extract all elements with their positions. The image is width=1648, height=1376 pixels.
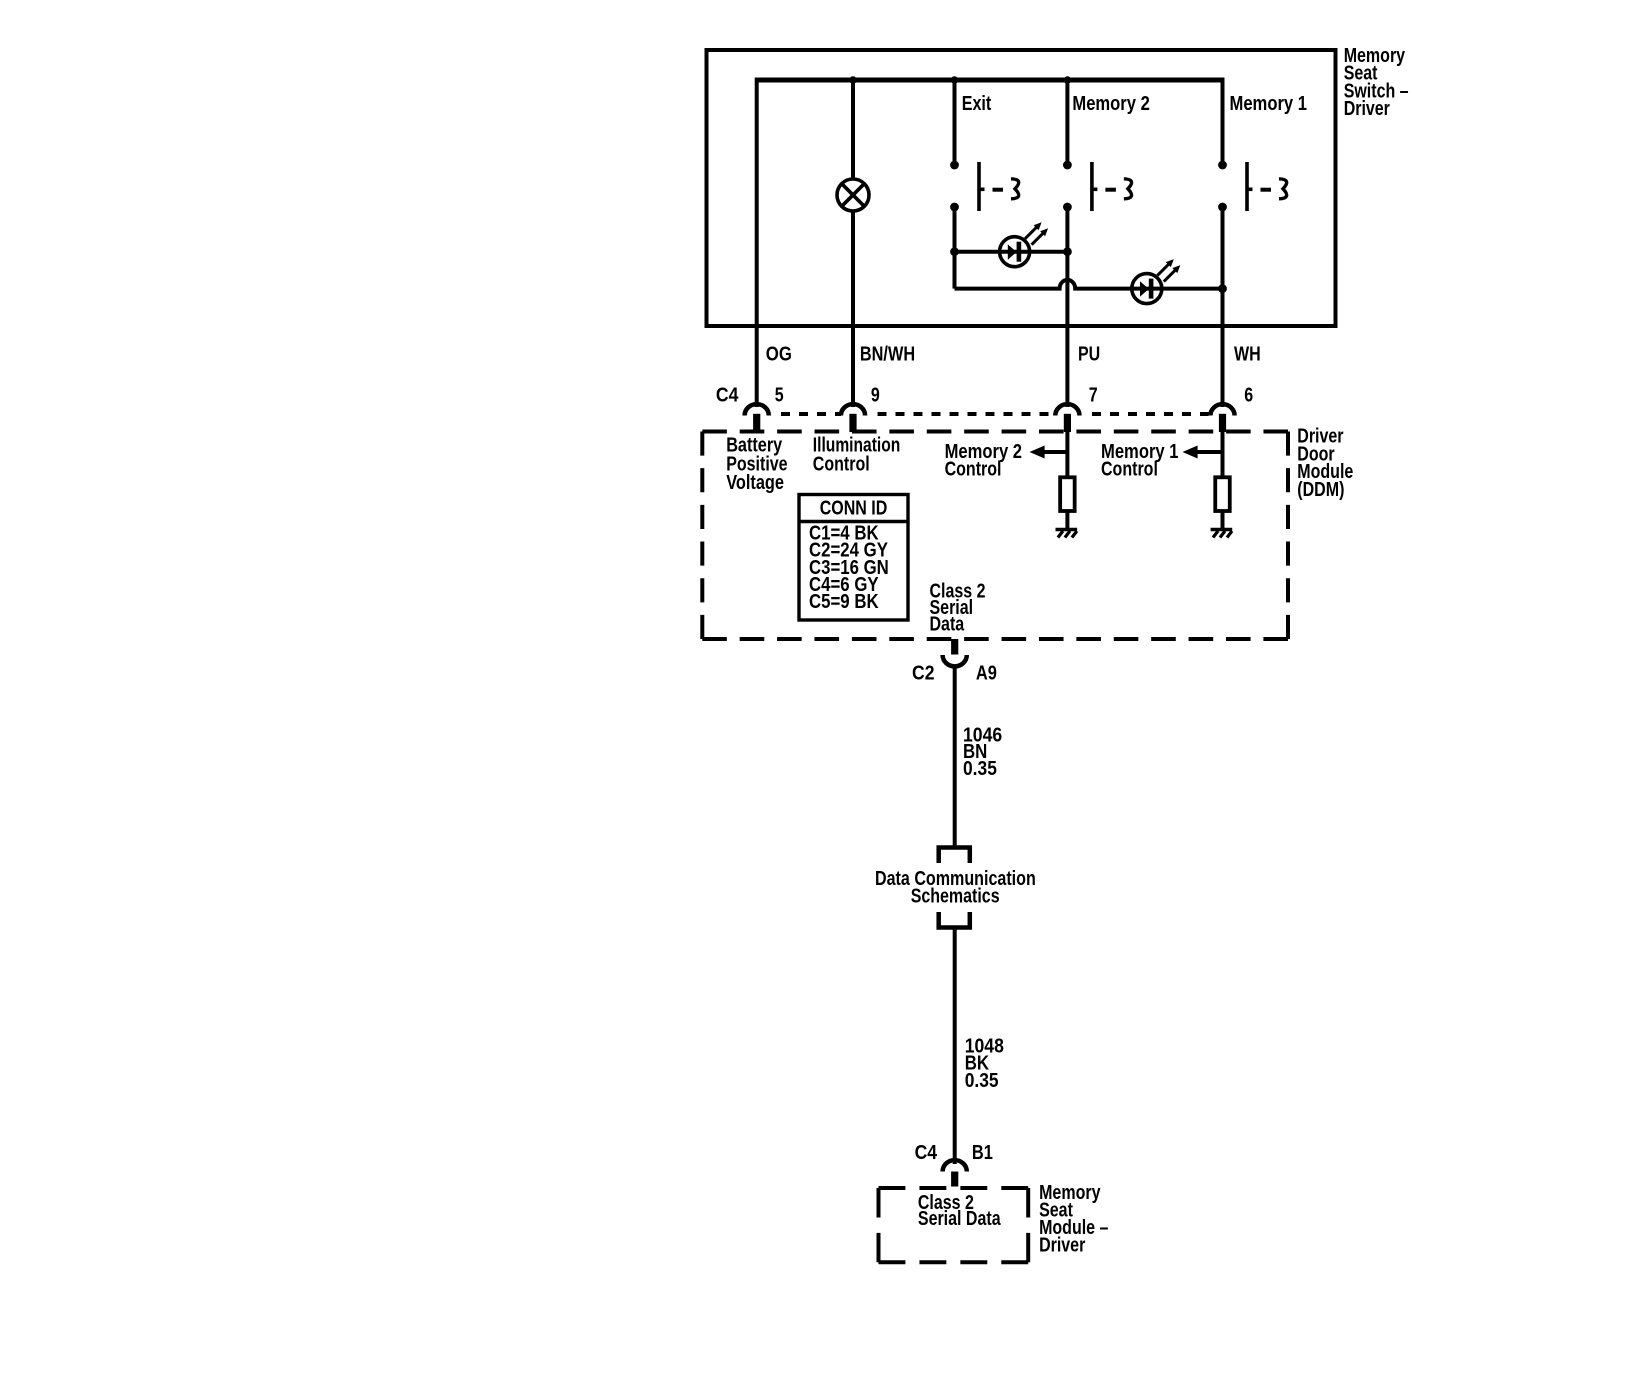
connector pin stub C4/B1 lower <box>951 1172 958 1187</box>
switch SW-Mem1 actuator bar <box>1245 162 1249 211</box>
node memory2 bottom terminal <box>1063 203 1072 212</box>
wire OG drop <box>755 78 759 327</box>
LED D2 memory1 indicator <box>1132 274 1162 304</box>
resistor R1 memory2 pulldown <box>1060 477 1075 511</box>
wire memory1 upper <box>1221 78 1225 166</box>
svg-text:Memory 2: Memory 2 <box>1072 93 1149 115</box>
wire bus <box>757 78 1223 83</box>
ground G1 <box>1056 528 1078 532</box>
connector pin stub pin 9 <box>849 414 856 432</box>
svg-text:C4: C4 <box>915 1142 938 1164</box>
svg-text:CONN ID: CONN ID <box>820 498 888 520</box>
lamp L1 illumination <box>837 179 869 211</box>
node memory 2 control arrow <box>1043 450 1067 454</box>
node LED1 row left junction <box>950 247 959 256</box>
connector pin stub C2 A9 upper <box>951 639 958 655</box>
svg-text:BN/WH: BN/WH <box>860 344 915 366</box>
switch SW-Mem2 momentary arrow <box>1124 179 1132 199</box>
LED D2 memory1 indicator emission arrows <box>1157 264 1169 276</box>
svg-text:C5=9 BK: C5=9 BK <box>809 591 879 613</box>
node memory 1 control arrow <box>1196 450 1223 454</box>
connector pin stub pin 7 <box>1064 414 1071 432</box>
svg-text:PU: PU <box>1078 344 1100 366</box>
svg-text:Control: Control <box>1101 458 1158 480</box>
svg-text:6: 6 <box>1244 385 1253 407</box>
switch SW-Exit actuator bar <box>977 162 981 211</box>
svg-text:Control: Control <box>945 458 1002 480</box>
wire connector dashed link 5-9 <box>781 412 841 416</box>
wire 1046 BN <box>953 667 957 848</box>
wire exit upper <box>953 80 957 165</box>
svg-text:0.35: 0.35 <box>965 1070 999 1092</box>
svg-text:A9: A9 <box>976 663 997 685</box>
svg-text:OG: OG <box>766 344 792 366</box>
bracket lower <box>939 912 970 928</box>
wire 1048 BK <box>953 928 957 1165</box>
connector half-circle C2/A9 <box>943 655 967 666</box>
node exit top terminal <box>950 161 959 170</box>
svg-text:C4: C4 <box>716 385 739 407</box>
node bus-exit junction <box>951 76 959 84</box>
wire lamp feed <box>851 80 855 179</box>
ground G2 <box>1211 528 1233 532</box>
Driver Door Module (DDM) dashed box <box>702 430 1288 434</box>
svg-text:B1: B1 <box>972 1142 993 1164</box>
resistor R2 memory1 pulldown <box>1215 477 1230 511</box>
svg-text:0.35: 0.35 <box>963 758 997 780</box>
wire exit lower <box>953 207 957 289</box>
wire OG to connector <box>755 326 759 407</box>
switch SW-Mem1 dashed link <box>1261 188 1272 192</box>
wire PU to connector <box>1065 326 1069 407</box>
switch SW-Exit dashed link <box>993 188 1004 192</box>
LED D1 memory2 indicator <box>1000 237 1030 267</box>
wire lamp to box edge <box>851 212 855 327</box>
wire BN/WH to connector <box>851 326 855 407</box>
wire connector dashed link 9-7 <box>878 412 1054 416</box>
node bus-memory2 junction <box>1064 76 1072 84</box>
svg-text:C2: C2 <box>912 663 935 685</box>
connector pin stub pin 6 <box>1219 414 1226 432</box>
wire memory1 lower <box>1221 207 1225 326</box>
switch SW-Mem2 dashed link <box>1105 188 1116 192</box>
wire connector dashed link 7-6 <box>1092 412 1209 416</box>
node memory2 top terminal <box>1063 161 1072 170</box>
connector half-circle pin 5 <box>745 404 769 415</box>
node exit bottom terminal <box>950 203 959 212</box>
svg-text:WH: WH <box>1234 344 1261 366</box>
LED D1 memory2 indicator emission arrows <box>1025 227 1037 239</box>
node memory1 bottom terminal <box>1218 203 1227 212</box>
node LED1 row right junction <box>1063 247 1072 256</box>
svg-text:5: 5 <box>775 385 784 407</box>
connector half-circle C4/B1 <box>943 1160 967 1171</box>
svg-text:Driver: Driver <box>1039 1234 1085 1256</box>
wire memory2 lower <box>1065 207 1069 326</box>
connector half-circle pin 9 <box>841 404 865 415</box>
svg-text:Voltage: Voltage <box>726 472 784 494</box>
svg-text:Serial Data: Serial Data <box>918 1208 1001 1230</box>
connector half-circle pin 6 <box>1210 404 1234 415</box>
svg-text:Data: Data <box>930 614 965 636</box>
svg-text:7: 7 <box>1089 385 1098 407</box>
Memory Seat Module - Driver dashed box <box>879 1186 1029 1190</box>
bracket upper <box>939 848 970 864</box>
wire WH to connector <box>1221 326 1225 407</box>
svg-text:(DDM): (DDM) <box>1297 479 1344 501</box>
svg-text:Schematics: Schematics <box>911 885 1000 907</box>
svg-text:Exit: Exit <box>962 93 992 115</box>
CONN ID table <box>799 495 908 621</box>
switch SW-Exit momentary arrow <box>1011 179 1019 199</box>
wire memory2 control drop <box>1065 432 1069 477</box>
svg-text:Driver: Driver <box>1344 98 1390 120</box>
wire LED2 row with hop over memory2 wire <box>955 280 1223 289</box>
wire memory2 upper <box>1065 80 1069 165</box>
switch SW-Mem1 momentary arrow <box>1279 179 1287 199</box>
node bus-lamp junction <box>849 76 857 84</box>
svg-text:Memory 1: Memory 1 <box>1230 93 1308 115</box>
connector half-circle pin 7 <box>1055 404 1079 415</box>
svg-text:9: 9 <box>871 385 880 407</box>
wire LED1 row <box>955 250 1068 254</box>
wire memory1 control drop <box>1221 432 1225 477</box>
node LED2 row right junction <box>1218 284 1227 293</box>
switch SW-Mem2 actuator bar <box>1090 162 1094 211</box>
Memory Seat Switch - Driver box <box>707 50 1336 326</box>
node memory1 top terminal <box>1218 161 1227 170</box>
connector pin stub pin 5 <box>753 414 760 432</box>
svg-text:Control: Control <box>813 453 870 475</box>
